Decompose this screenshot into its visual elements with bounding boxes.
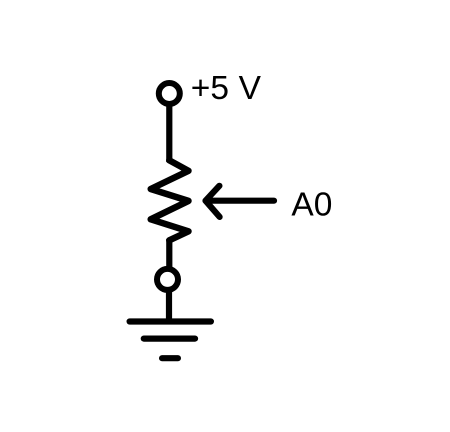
svg-text:+5: +5 [191, 70, 229, 107]
svg-text:A0: A0 [291, 187, 332, 224]
svg-text:V: V [239, 70, 262, 107]
